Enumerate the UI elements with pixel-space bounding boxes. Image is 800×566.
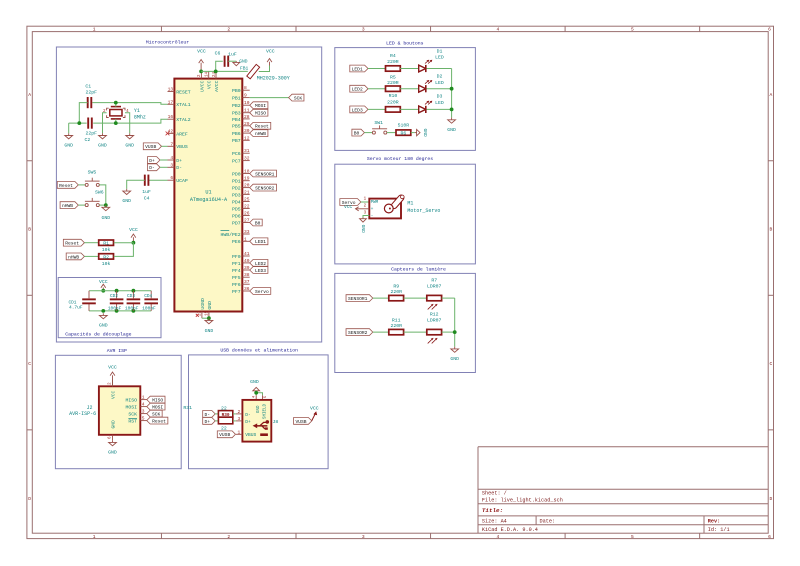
power VCC decoupling [99,279,108,293]
svg-text:25: 25 [244,197,250,203]
capacitor C1 [85,84,97,109]
svg-text:1: 1 [93,534,96,540]
svg-text:D1: D1 [437,48,443,54]
label VUSB USB [217,431,235,438]
svg-text:D+: D+ [245,419,251,425]
capacitor C6 [215,51,237,67]
svg-text:D-: D- [149,165,155,171]
svg-text:MOSI: MOSI [125,405,137,411]
svg-text:6: 6 [170,175,173,181]
svg-text:PD1: PD1 [232,179,241,185]
wire VCC to J2 [109,380,113,387]
label Reset SW5 [57,182,85,189]
svg-text:220R: 220R [387,59,399,65]
svg-text:17: 17 [168,99,174,105]
svg-text:D: D [28,496,31,502]
label LED2 [350,85,386,92]
svg-text:PF7: PF7 [232,289,241,295]
power VCC J2 [108,365,117,380]
ground capteurs [450,347,459,362]
svg-text:AREF: AREF [176,131,188,137]
motor M1 Motor_Servo body [364,198,441,220]
power VCC servo [344,204,369,211]
svg-text:2: 2 [227,534,230,540]
ground LED rail [447,118,456,133]
svg-text:MISO: MISO [125,398,137,404]
svg-text:20: 20 [244,183,250,189]
no-connect cross AREF [166,132,170,136]
label Reset R1 [63,239,98,246]
svg-text:PC6: PC6 [232,151,241,157]
svg-text:MOSI: MOSI [152,405,163,411]
svg-text:LED3: LED3 [352,107,363,113]
svg-text:SENSOR1: SENSOR1 [255,171,275,177]
svg-text:MISO: MISO [152,398,163,404]
svg-text:9: 9 [244,93,247,99]
svg-text:FB1: FB1 [240,65,249,71]
svg-text:D+: D+ [149,158,155,164]
power VCC pullups [129,227,138,245]
diode D1 LED [419,48,444,72]
label SENSOR1 [346,295,389,302]
label LED3 PF4 [250,267,268,274]
svg-text:220R: 220R [387,80,399,86]
svg-text:LED: LED [435,100,444,106]
ground right of C6 [233,59,248,66]
svg-text:B0: B0 [354,131,360,137]
svg-text:PE6: PE6 [232,239,241,245]
J8 left pin stubs [236,409,243,435]
svg-text:SCK: SCK [128,412,137,418]
svg-text:Title:: Title: [482,507,503,514]
label Reset J2 [147,417,168,424]
svg-text:PD3: PD3 [232,192,241,198]
label SENSOR2 PD2 [250,184,277,191]
capacitor C2 [85,118,98,143]
svg-text:R7: R7 [431,278,437,284]
connector J8 USB body [242,400,278,442]
svg-text:22: 22 [244,204,250,210]
svg-text:R9: R9 [393,283,399,289]
label LED3 [350,106,386,113]
svg-text:LED2: LED2 [255,261,266,267]
svg-text:14: 14 [206,71,210,77]
capacitor CD2 [108,291,124,312]
group box Microcontroleur [56,40,321,342]
wire crystal pin3 [114,119,118,125]
wire R4 to D1 [400,68,419,70]
svg-text:GND: GND [108,449,117,455]
switch SW1 [372,120,387,134]
svg-text:R1: R1 [103,241,109,247]
svg-text:LED1: LED1 [255,239,266,245]
svg-text:4: 4 [496,27,499,33]
wire D2 to rail [427,88,452,90]
svg-text:11: 11 [244,108,250,114]
svg-text:41: 41 [244,251,250,257]
svg-text:15: 15 [206,310,210,316]
wire SW1 to R6 [387,132,396,134]
wire R6 out [411,132,415,134]
svg-text:A: A [28,92,31,98]
resistor R6 [396,122,411,136]
svg-text:1: 1 [238,429,241,435]
resistor R31 [183,405,232,431]
wire C6 left to rail [214,61,223,73]
svg-text:30: 30 [244,128,250,134]
svg-text:3: 3 [142,409,145,415]
svg-text:100nF: 100nF [108,305,122,311]
label MISO J2 [147,396,165,403]
svg-text:PF6: PF6 [232,282,241,288]
label SENSOR2 [346,329,389,336]
svg-text:3: 3 [362,27,365,33]
svg-text:PD6: PD6 [232,213,241,219]
svg-text:SHIELD: SHIELD [263,403,267,419]
U1 bottom pins UGND GND [196,298,213,318]
svg-text:1: 1 [142,395,145,401]
svg-text:R5: R5 [390,75,396,81]
svg-text:VCC: VCC [310,405,319,411]
label B0 PD7 [250,219,263,226]
wire LED rail [450,69,454,118]
svg-text:220R: 220R [390,323,402,329]
switch SW5 [85,169,100,186]
svg-text:-: - [371,214,374,219]
svg-text:PF5: PF5 [232,275,241,281]
svg-text:21: 21 [244,189,250,195]
svg-text:Capteurs de lumière: Capteurs de lumière [391,267,446,273]
wire D1 to rail [427,68,452,70]
svg-text:D-: D- [245,412,251,418]
svg-text:D-: D- [204,412,210,418]
svg-text:UGND: UGND [200,298,206,310]
svg-text:R12: R12 [430,312,439,318]
svg-text:SENSOR2: SENSOR2 [348,330,368,336]
svg-text:12: 12 [244,135,250,141]
J2 pin RST [128,416,146,425]
U1 left pins RESET XTAL1 XTAL2 AREF VBUS D+ D- UCAP [168,87,191,185]
resistor R7 LDR07 [427,278,442,310]
J2 pin SCK [128,409,146,418]
capacitor CD4 [142,294,158,311]
svg-text:6: 6 [768,27,771,33]
svg-text:U1: U1 [205,189,211,195]
svg-text:10k: 10k [102,247,111,253]
svg-text:GND: GND [250,379,259,385]
svg-text:6: 6 [768,534,771,540]
ground U1 bottom [205,318,214,334]
resistor R4 [386,53,401,71]
group box Capacites de decouplage [58,278,161,338]
wire XTAL2 row [69,119,168,123]
svg-text:D-: D- [176,165,182,171]
label nHWB PB6 [250,130,268,137]
wire R10 to D3 [400,108,419,110]
wire SW5 to junction [99,185,106,205]
svg-text:22pF: 22pF [85,90,97,96]
label VUSB to VCC [294,418,312,425]
svg-text:PB0: PB0 [232,88,241,94]
diode D2 LED [419,73,444,92]
svg-text:100nF: 100nF [125,305,139,311]
svg-text:VCC: VCC [129,227,138,233]
wire R30 to pin [233,413,236,415]
svg-text:26: 26 [244,211,250,217]
svg-text:AVCC: AVCC [214,80,220,92]
svg-text:PB3: PB3 [232,111,241,117]
svg-text:GND: GND [122,198,131,204]
title block [478,447,768,533]
svg-text:3: 3 [170,162,173,168]
svg-text:31: 31 [244,148,250,154]
svg-text:100nF: 100nF [142,305,156,311]
ground rotated after R6 [415,128,428,137]
svg-text:36: 36 [244,286,250,292]
svg-text:220R: 220R [387,100,399,106]
svg-text:VBUS: VBUS [245,432,256,438]
wire decoupling top rail [89,289,151,298]
svg-text:Sheet: /: Sheet: / [482,491,507,497]
label D+ [147,157,167,164]
svg-text:VCC: VCC [197,49,206,55]
svg-text:B: B [28,226,31,232]
resistor R30 [218,405,232,418]
svg-text:Motor_Servo: Motor_Servo [407,208,440,214]
label nHWB R2 [66,253,98,260]
svg-text:UCAP: UCAP [176,178,188,184]
connector J2 AVR-ISP-6 body [69,386,140,435]
wire C1 left branch [77,103,87,125]
motor M1 rotor icon [384,194,405,213]
J2 pin MISO [125,395,146,404]
svg-text:MH2029-300Y: MH2029-300Y [257,75,290,81]
svg-text:PF4: PF4 [232,268,241,274]
svg-text:PC7: PC7 [232,159,241,165]
label B0 SW1 [352,129,373,136]
svg-text:PD2: PD2 [232,186,241,192]
svg-text:37: 37 [244,279,250,285]
ferrite bead FB1 [240,64,290,81]
svg-text:1: 1 [244,236,247,242]
svg-text:1uF: 1uF [228,52,237,58]
svg-text:PF0: PF0 [232,254,241,260]
svg-text:PD7: PD7 [232,220,241,226]
svg-text:D3: D3 [437,93,443,99]
label LED1 [350,65,386,72]
svg-text:GND: GND [257,405,261,413]
svg-text:8Mhz: 8Mhz [134,114,146,120]
svg-text:PB6: PB6 [232,131,241,137]
group box Capteurs de lumiere [335,267,476,373]
svg-text:SCK: SCK [152,412,161,418]
svg-text:C: C [770,361,773,367]
svg-text:D+: D+ [204,419,210,425]
label MISO [250,109,268,116]
label Servo PF7 [250,288,271,295]
svg-text:RST: RST [128,419,137,425]
svg-text:5: 5 [631,27,634,33]
svg-text:RESET: RESET [176,89,191,95]
svg-text:PD5: PD5 [232,206,241,212]
wire XTAL1 row [92,103,167,105]
svg-text:SENSOR2: SENSOR2 [255,186,275,192]
svg-text:510R: 510R [398,122,410,128]
svg-text:R31: R31 [183,405,192,411]
svg-text:VUSB: VUSB [219,432,230,438]
wire R31 to pin [233,420,236,422]
svg-text:LED & boutons: LED & boutons [386,41,424,47]
capacitor C4 [142,175,151,202]
svg-text:PD0: PD0 [232,171,241,177]
svg-text:Id: 1/1: Id: 1/1 [708,527,730,533]
svg-text:Reset: Reset [255,124,269,130]
svg-text:GND: GND [205,328,214,334]
group box AVR ISP [55,348,181,469]
ground USB top [250,379,260,393]
svg-text:GND: GND [450,356,459,362]
svg-text:Microcontrôleur: Microcontrôleur [146,40,189,46]
svg-text:VCC: VCC [110,390,116,399]
svg-text:CD4: CD4 [144,294,152,299]
svg-text:nHWB: nHWB [62,203,73,209]
svg-text:GND: GND [447,127,456,133]
svg-text:D: D [770,496,773,502]
resistor R2 [99,254,114,267]
svg-text:SW5: SW5 [88,169,97,175]
svg-text:CD3: CD3 [127,294,135,299]
svg-text:VUSB: VUSB [295,419,306,425]
svg-text:PF1: PF1 [232,261,241,267]
label Servo input [340,199,369,206]
svg-text:22: 22 [221,425,227,431]
svg-text:A: A [770,92,773,98]
group box LED & boutons [335,41,476,151]
svg-text:M1: M1 [407,201,413,207]
svg-text:SW6: SW6 [95,189,104,195]
usb icon [253,420,270,436]
wire decoupling bottom rail [89,304,151,313]
power VCC USB right [310,405,319,420]
svg-text:R11: R11 [392,317,401,323]
svg-text:Servo: Servo [255,289,269,295]
wire J2 gnd pin [109,435,113,440]
label VUSB [143,143,167,150]
svg-text:LDR07: LDR07 [427,283,442,289]
svg-text:ATmega16U4-A: ATmega16U4-A [190,197,228,203]
label D+ USB [203,418,219,425]
wire C6 right to gnd [228,60,236,62]
group box USB [189,348,329,469]
svg-text:8: 8 [244,85,247,91]
switch SW6 [85,189,104,206]
svg-text:R2: R2 [103,254,109,260]
wire UCAP [148,179,167,181]
svg-text:PB2: PB2 [232,103,241,109]
svg-text:C6: C6 [215,51,221,57]
wire SCK [250,97,289,99]
capacitor CD3 [125,291,140,312]
svg-text:C: C [28,361,31,367]
svg-text:LED: LED [435,55,444,61]
wire R1 to VCC [114,242,134,244]
svg-text:19: 19 [244,176,250,182]
svg-text:1uF: 1uF [142,189,151,195]
svg-text:3: 3 [362,534,365,540]
svg-text:4: 4 [142,402,145,408]
wire R9 to R7 [404,297,427,299]
label SCK [289,94,304,101]
svg-text:VUSB: VUSB [145,144,156,150]
svg-text:Capacités de découplage: Capacités de découplage [65,331,131,337]
svg-text:VCC: VCC [108,365,117,371]
label nHWB SW6 [60,202,85,209]
wire R7 to rail [442,297,455,299]
ground below SW6 [101,205,110,221]
wire R12 to rail [442,331,455,333]
svg-text:C2: C2 [85,137,91,143]
svg-text:29: 29 [244,121,250,127]
svg-text:VCC: VCC [99,279,108,285]
svg-text:R10: R10 [389,93,398,99]
svg-text:Rev:: Rev: [708,519,720,525]
svg-text:GND: GND [110,420,116,429]
svg-text:23: 23 [199,310,203,316]
svg-text:VCC: VCC [344,204,353,210]
ground J2 [108,440,117,455]
wire VCC rail [201,70,248,72]
svg-text:Date:: Date: [540,519,556,525]
svg-text:22: 22 [221,405,227,411]
svg-text:39: 39 [244,265,250,271]
svg-text:2: 2 [238,409,241,415]
svg-text:J8: J8 [273,419,279,425]
label LED1 PE6 [250,238,268,245]
svg-text:Servo moteur 180 degres: Servo moteur 180 degres [367,156,433,162]
svg-text:18: 18 [244,169,250,175]
svg-text:LED: LED [435,80,444,86]
svg-text:GND: GND [207,301,213,310]
svg-text:LED3: LED3 [255,268,266,274]
svg-text:D+: D+ [176,158,182,164]
svg-text:LDR07: LDR07 [427,317,442,323]
svg-text:4.7uF: 4.7uF [69,305,83,311]
svg-text:GND: GND [125,142,134,148]
svg-text:LED1: LED1 [352,66,363,72]
op-amp U1 ATmega16U4-A body [174,79,242,312]
svg-text:38: 38 [244,272,250,278]
svg-text:XTAL1: XTAL1 [176,102,191,108]
svg-text:Size: A4: Size: A4 [482,519,507,525]
svg-text:SENSOR1: SENSOR1 [348,296,368,302]
svg-text:42: 42 [168,128,174,134]
wire SW6 to junction [99,203,107,207]
svg-text:C4: C4 [144,196,150,202]
svg-text:27: 27 [244,218,250,224]
svg-text:22pF: 22pF [85,131,97,137]
svg-text:32: 32 [244,156,250,162]
ground below C2 [64,123,73,148]
svg-text:VCC: VCC [266,49,275,55]
svg-text:VCC: VCC [207,80,213,89]
svg-text:PWM: PWM [371,201,379,205]
svg-text:10: 10 [244,100,250,106]
wire servo pin3 to gnd [363,216,369,218]
label LED2 PF1 [250,260,268,267]
wire R5 to D2 [400,88,419,90]
svg-text:PD4: PD4 [232,199,241,205]
svg-text:GND: GND [422,128,428,137]
